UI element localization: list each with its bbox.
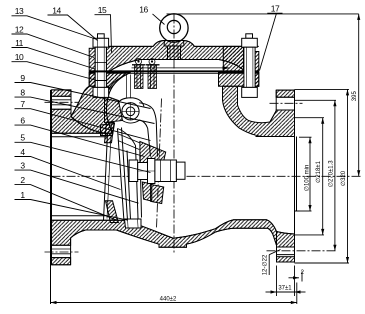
svg-text:6: 6 (20, 115, 25, 125)
svg-text:395: 395 (352, 91, 358, 102)
svg-text:2: 2 (301, 270, 305, 276)
svg-text:440±2: 440±2 (160, 297, 177, 303)
svg-text:12-∅22: 12-∅22 (262, 254, 269, 275)
svg-text:17: 17 (271, 4, 280, 14)
svg-text:9: 9 (20, 73, 25, 83)
svg-text:5: 5 (20, 133, 25, 143)
svg-text:16: 16 (139, 4, 148, 14)
svg-text:∅270±1.3: ∅270±1.3 (327, 160, 334, 188)
svg-text:11: 11 (15, 38, 24, 48)
svg-text:2: 2 (20, 175, 25, 185)
svg-text:10: 10 (15, 52, 24, 62)
svg-text:∅100 min: ∅100 min (304, 165, 311, 192)
svg-text:1: 1 (20, 190, 25, 200)
svg-text:15: 15 (98, 5, 107, 15)
svg-text:∅218±1: ∅218±1 (315, 160, 322, 183)
svg-text:∅320: ∅320 (340, 170, 347, 186)
svg-text:3: 3 (20, 160, 25, 170)
svg-text:14: 14 (52, 5, 61, 15)
svg-text:4: 4 (20, 147, 25, 157)
svg-text:37±1: 37±1 (278, 286, 292, 292)
svg-text:13: 13 (15, 6, 24, 16)
svg-text:12: 12 (15, 24, 24, 34)
svg-text:7: 7 (20, 99, 25, 109)
svg-text:8: 8 (20, 87, 25, 97)
